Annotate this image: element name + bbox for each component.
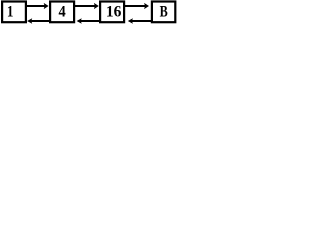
- node box B: [152, 2, 175, 23]
- node box 1: [2, 2, 26, 23]
- svg-text:16: 16: [106, 3, 122, 20]
- doubly linked list diagram: nodes 1, 4, 16, B: [0, 0, 177, 59]
- arrowhead forward 4 to 16: [94, 3, 99, 9]
- wire forward arrow 1 to 4: [26, 5, 46, 7]
- svg-text:4: 4: [59, 3, 67, 21]
- arrowhead back 16 to 4: [77, 18, 82, 23]
- wire forward arrow 4 to 16: [74, 5, 96, 7]
- wire back arrow 4 to 1: [31, 20, 50, 22]
- arrowhead back 4 to 1: [27, 18, 32, 23]
- wire forward arrow 16 to B: [124, 5, 146, 7]
- svg-text:1: 1: [7, 3, 14, 20]
- arrowhead forward 16 to B: [144, 3, 149, 9]
- svg-text:B: B: [160, 3, 169, 21]
- arrowhead forward 1 to 4: [44, 3, 49, 9]
- wire back arrow B to 16: [132, 20, 152, 22]
- arrowhead back B to 16: [128, 18, 133, 23]
- node box 16: [100, 2, 124, 23]
- node box 4: [50, 2, 74, 23]
- background: [0, 0, 177, 59]
- wire back arrow 16 to 4: [80, 20, 100, 22]
